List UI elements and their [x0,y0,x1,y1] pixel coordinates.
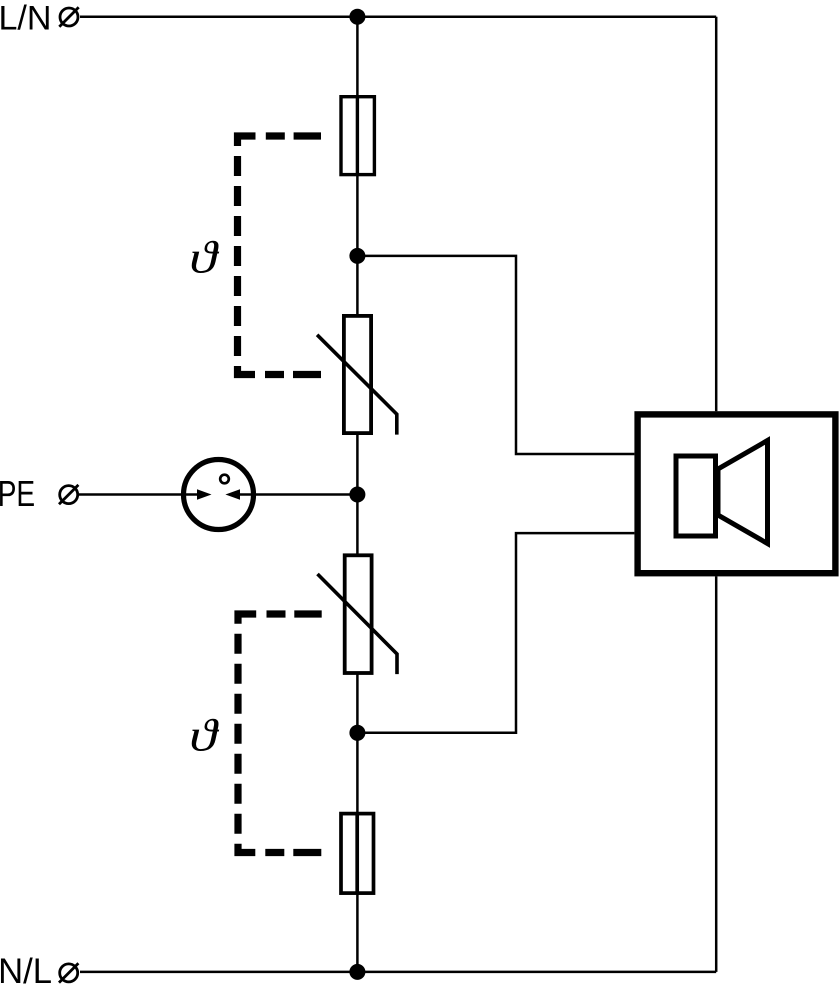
varistor RV2 [318,555,398,674]
node A (top rail junction) [349,9,365,25]
wire: top rail L/N from terminal to right corner [80,15,716,18]
wire: upper branch from node to signal box [357,256,634,454]
wire: PE row from terminal to main line [79,493,357,496]
svg-text:L/N: L/N [0,0,52,38]
fuse F2 [341,814,374,894]
wire: main vertical top segment (through fuse F1) [356,17,359,315]
svg-text:N/L: N/L [0,952,52,991]
dashed thermal link lower [238,614,322,853]
dashed thermal link upper [238,136,322,375]
wire: right rail lower (signal box bottom down to bottom rail) [715,576,718,972]
node D (lower branch junction) [349,725,365,741]
speaker symbol [676,456,716,536]
spark gap (isolating spark gap) [184,460,254,530]
svg-text:PE: PE [0,473,35,514]
wire: right rail upper (corner down to signal box top) [715,17,718,412]
wire: bottom rail N/L [80,971,716,974]
varistor RV1 [317,316,397,435]
terminal PE [59,485,78,504]
node B (upper branch junction) [349,248,365,264]
wire: main vertical bottom segment (through fuse F2) [356,674,359,972]
fuse F1 [341,97,374,175]
node E (bottom rail junction) [349,964,365,980]
terminal N/L [59,963,78,982]
svg-text:ϑ: ϑ [189,710,219,761]
terminal L/N [59,7,78,26]
acoustic signal unit box [638,414,836,573]
node C (PE junction) [349,487,365,503]
wire: lower branch from node to signal box [357,533,634,733]
wire: main vertical middle segment (between varistors) [356,434,359,555]
svg-text:ϑ: ϑ [189,232,219,283]
